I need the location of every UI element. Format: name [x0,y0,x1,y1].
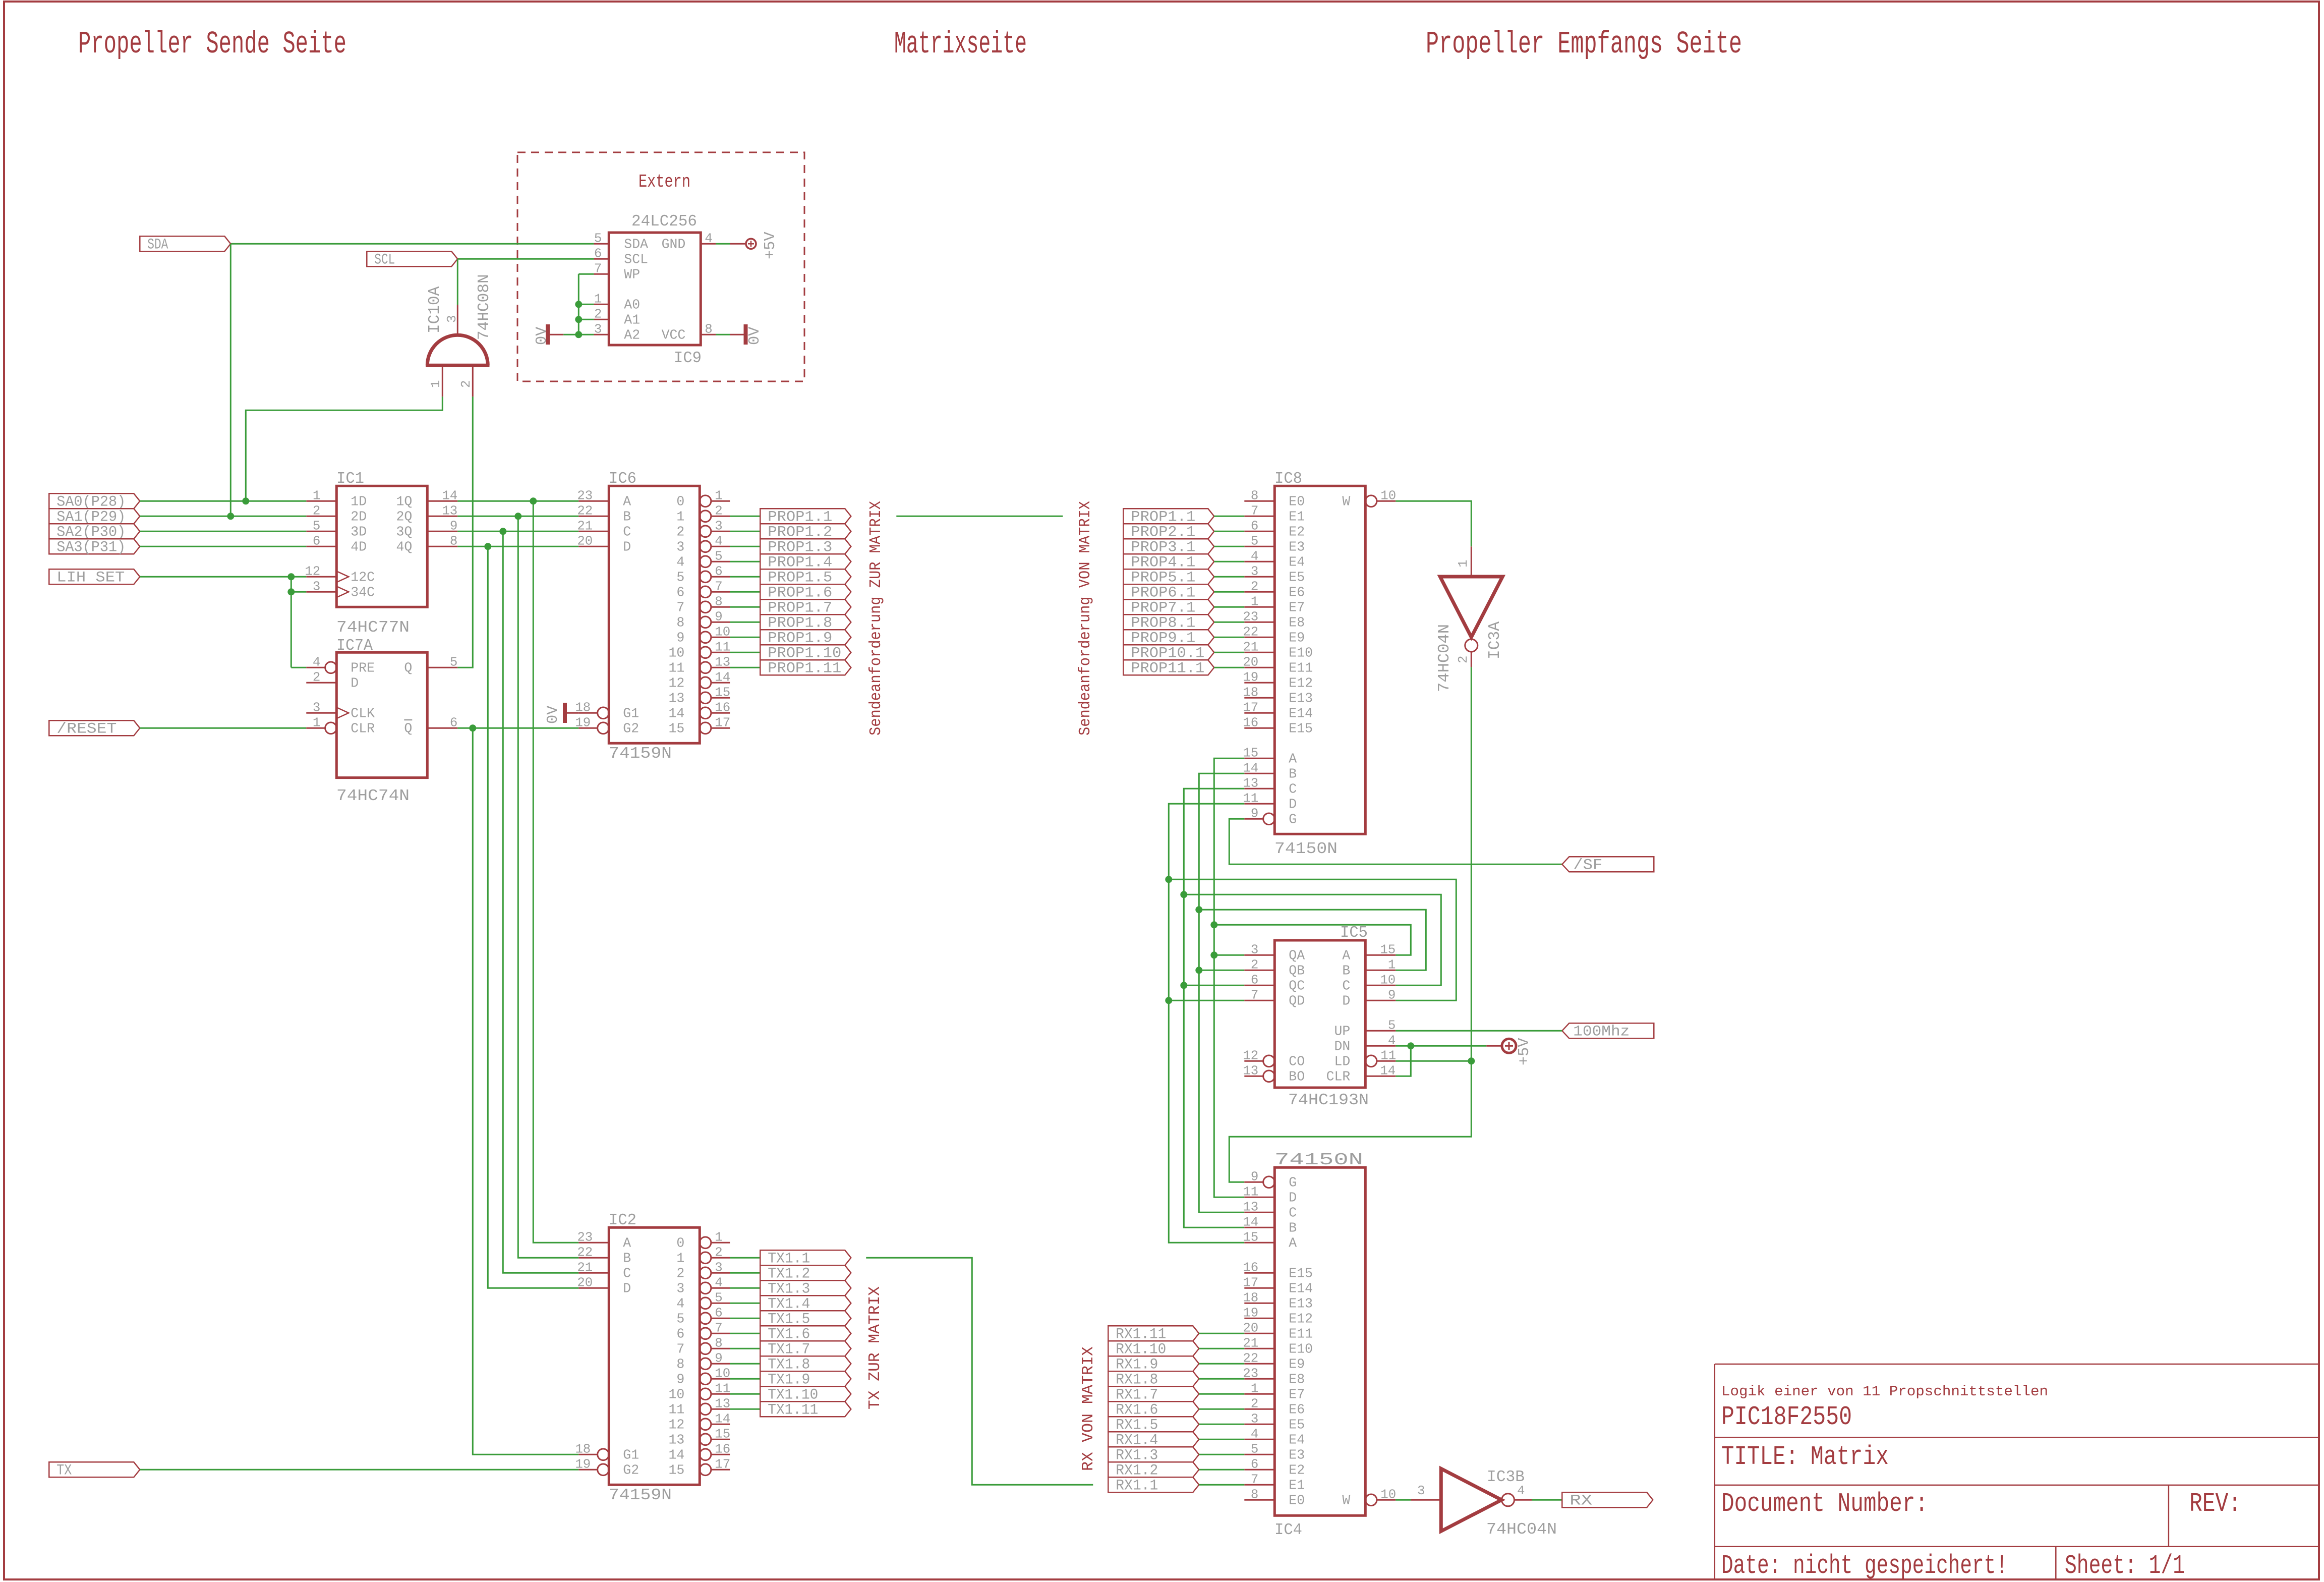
flag /SF [1562,857,1654,872]
svg-text:1: 1 [715,488,722,503]
junction SDA to 2D [227,513,234,520]
svg-text:1: 1 [594,292,602,306]
wire TX1.1 trunk [866,1258,1093,1485]
wire RX1.6 to IC4 [1199,1408,1244,1410]
svg-text:QB: QB [1289,963,1305,978]
svg-text:W: W [1342,1493,1350,1508]
svg-text:/SF: /SF [1573,857,1602,874]
svg-text:8: 8 [1251,1487,1258,1502]
svg-text:CLK: CLK [351,706,375,721]
IC IC6 74159N demultiplexer [609,486,700,743]
svg-text:A1: A1 [624,312,640,327]
svg-text:13: 13 [1243,1200,1258,1214]
svg-text:18: 18 [575,700,591,715]
wire DN to +5V [1396,1045,1486,1047]
svg-text:RX1.5: RX1.5 [1116,1417,1158,1434]
wire IC2 out 6 to flag [730,1333,760,1334]
svg-text:7: 7 [594,261,602,276]
svg-text:B: B [1342,963,1350,978]
svg-text:TX ZUR MATRIX: TX ZUR MATRIX [866,1286,884,1409]
svg-text:E4: E4 [1289,1432,1305,1447]
svg-text:3: 3 [715,1260,722,1275]
svg-text:5: 5 [1251,534,1258,548]
svg-text:E0: E0 [1289,1493,1305,1508]
svg-text:5: 5 [1251,1442,1258,1456]
svg-text:Matrixseite: Matrixseite [894,26,1027,62]
svg-text:IC4: IC4 [1274,1521,1302,1539]
svg-text:G2: G2 [623,1462,639,1478]
svg-text:D: D [623,1281,631,1296]
flag RX1.11 [1108,1326,1199,1341]
svg-text:SDA: SDA [147,236,168,253]
wire IC6 out 10 to flag [730,652,760,653]
svg-text:15: 15 [715,685,730,700]
svg-text:23: 23 [577,488,593,503]
svg-text:3: 3 [676,1281,684,1296]
svg-text:QD: QD [1289,993,1305,1008]
svg-text:7: 7 [676,1341,684,1357]
junction 4Q column D [484,543,491,550]
svg-text:8: 8 [676,1357,684,1372]
svg-text:74HC04N: 74HC04N [1486,1521,1557,1539]
svg-text:74HC04N: 74HC04N [1436,624,1454,692]
wire B to IC5 B [1199,910,1426,970]
svg-text:5: 5 [715,549,722,563]
inverter IC3B 74HC04N [1411,1499,1441,1501]
svg-text:10: 10 [668,645,684,660]
svg-text:11: 11 [1243,1184,1258,1199]
svg-text:GND: GND [662,237,686,252]
svg-text:1: 1 [313,488,320,503]
svg-text:9: 9 [1251,806,1258,821]
svg-text:Propeller Sende Seite: Propeller Sende Seite [78,26,346,62]
svg-text:12: 12 [305,564,320,579]
svg-text:E7: E7 [1289,1387,1305,1402]
wire IC2 out 4 to flag [730,1303,760,1304]
svg-text:PIC18F2550: PIC18F2550 [1721,1402,1852,1432]
svg-text:3: 3 [594,322,602,336]
svg-text:D: D [1289,1190,1297,1205]
wire IC9 A1 tie [578,319,594,320]
svg-text:Propeller Empfangs Seite: Propeller Empfangs Seite [1426,26,1742,62]
flag RX1.10 [1108,1341,1199,1356]
svg-text:5: 5 [450,655,457,669]
svg-text:13: 13 [442,503,457,518]
svg-text:11: 11 [1243,791,1258,806]
svg-text:RX1.2: RX1.2 [1116,1462,1158,1479]
flag SA0(P28) [49,493,140,508]
svg-text:4: 4 [1251,549,1258,563]
svg-text:E9: E9 [1289,630,1305,645]
svg-text:Q: Q [404,660,412,675]
svg-text:2: 2 [715,503,722,518]
svg-text:4: 4 [676,554,684,570]
svg-text:5: 5 [594,231,602,246]
IC IC2 74159N demultiplexer [609,1227,700,1485]
svg-text:QC: QC [1289,978,1305,993]
svg-text:CLR: CLR [1326,1069,1351,1084]
wire D to IC5 D [1169,879,1456,1000]
Extern dashed boundary box [517,152,804,381]
svg-text:12: 12 [668,1417,684,1432]
svg-text:4: 4 [1388,1033,1396,1048]
wire PROP4.1 to IC8 [1214,561,1244,562]
svg-text:14: 14 [442,488,457,503]
svg-text:A: A [623,1235,631,1251]
svg-text:13: 13 [715,1396,730,1411]
svg-text:E12: E12 [1289,1311,1313,1326]
flag SA3(P31) [49,539,140,554]
junction LIH 12C [287,573,295,580]
wire IC3A out down to IC5 LD [1471,667,1472,1061]
svg-text:IC8: IC8 [1274,470,1302,488]
svg-text:BO: BO [1289,1069,1305,1084]
svg-text:C: C [623,524,631,539]
svg-text:3D: 3D [351,524,367,539]
junction notQ G1 drop [469,724,476,731]
wire IC2 out 11 to flag [730,1408,760,1410]
svg-text:8: 8 [715,1336,722,1350]
svg-text:E15: E15 [1289,721,1313,736]
svg-text:E5: E5 [1289,570,1305,585]
wire IC6 out 8 to flag [730,621,760,623]
wire IC2 out 9 to flag [730,1378,760,1380]
svg-text:E1: E1 [1289,1478,1305,1493]
svg-text:7: 7 [676,600,684,615]
svg-text:E9: E9 [1289,1357,1305,1372]
svg-text:34C: 34C [351,585,375,600]
svg-text:14: 14 [1243,761,1258,775]
svg-text:1D: 1D [351,494,367,509]
flag TX1.11 [760,1401,851,1417]
svg-text:2: 2 [715,1245,722,1260]
flag PROP1.1 [760,508,851,524]
junction bus link [1210,921,1217,928]
wire RX1.1 to IC4 [1199,1484,1244,1486]
svg-text:E10: E10 [1289,1341,1313,1357]
svg-text:B: B [623,1251,631,1266]
wire PROP1.1 trunk to matrix [896,516,1063,517]
wire IC1 Q to IC6 input [457,546,578,547]
flag RX1.1 [1108,1477,1199,1492]
flag 100Mhz [1562,1023,1654,1038]
wire LIH SET branch vertical [290,577,292,667]
svg-text:IC1: IC1 [336,470,364,488]
svg-text:1: 1 [715,1230,722,1245]
flag RX1.2 [1108,1462,1199,1477]
svg-text:4: 4 [715,534,722,548]
svg-text:10: 10 [715,625,730,639]
+5V supply symbol at IC9 pin4 [730,243,745,245]
svg-text:19: 19 [1243,1306,1258,1320]
wire SA0(P28) to IC1 [140,500,306,502]
svg-text:13: 13 [715,655,730,669]
svg-text:RX: RX [1570,1492,1592,1509]
flag TX1.2 [760,1265,851,1280]
IC IC9 24LC256 box and pins [609,233,701,345]
IC IC4 74150N multiplexer [1274,1167,1365,1515]
svg-text:9: 9 [676,1372,684,1387]
flag PROP1.6 [760,584,851,599]
wire IC9 WP tie [578,273,594,275]
svg-text:E3: E3 [1289,1447,1305,1462]
wire branch to IC7A PRE [291,667,306,668]
wire net A column [1214,758,1244,1197]
svg-text:3: 3 [445,315,459,323]
svg-text:6: 6 [450,715,457,730]
IC IC5 74HC193N counter [1274,940,1365,1088]
junction QD [1165,997,1172,1004]
svg-text:0: 0 [676,494,684,509]
flag TX1.10 [760,1386,851,1401]
wire RX1.2 to IC4 [1199,1469,1244,1471]
svg-text:A2: A2 [624,327,640,343]
svg-text:18: 18 [575,1442,591,1456]
junction QA [1210,951,1217,958]
wire IC4 W to IC3B [1396,1499,1411,1501]
svg-text:4: 4 [313,655,320,669]
flag PROP10.1 [1123,645,1214,660]
wire column A down to IC2 [533,501,578,1242]
svg-text:TX1.11: TX1.11 [768,1401,818,1419]
svg-text:74HC08N: 74HC08N [476,274,493,340]
svg-text:PROP1.11: PROP1.11 [768,660,841,677]
wire DN to CLR link [1396,1046,1411,1076]
svg-text:1: 1 [676,509,684,524]
junction DN [1407,1042,1414,1049]
svg-text:E12: E12 [1289,675,1313,691]
AND gate IC10A 74HC08N [427,335,488,365]
svg-text:G: G [1289,812,1297,827]
flag /RESET [49,720,140,736]
wire IC9 A0 tie [578,304,594,305]
wire SDA to IC9 pin5 [230,243,594,245]
svg-text:6: 6 [676,585,684,600]
flag SDA [140,236,230,251]
svg-text:E6: E6 [1289,1402,1305,1417]
svg-text:SA3(P31): SA3(P31) [56,539,126,556]
svg-text:TX: TX [56,1462,72,1479]
wire net D column [1169,804,1244,1242]
svg-text:74159N: 74159N [609,745,672,763]
svg-text:SCL: SCL [374,251,395,268]
inverter IC3A 74HC04N [1471,546,1472,577]
svg-text:13: 13 [668,691,684,706]
svg-text:7: 7 [1251,503,1258,518]
svg-text:RX1.8: RX1.8 [1116,1371,1158,1388]
wire IC2 out 10 to flag [730,1393,760,1395]
wire SA2(P30) to IC1 [140,531,306,532]
svg-text:8: 8 [715,594,722,609]
svg-text:C: C [1342,978,1350,993]
svg-text:2: 2 [676,1266,684,1281]
junction LD [1468,1057,1475,1064]
svg-text:G1: G1 [623,1447,639,1462]
svg-text:20: 20 [1243,655,1258,669]
svg-text:Extern: Extern [638,172,690,192]
svg-text:10: 10 [668,1387,684,1402]
flag PROP1.10 [760,645,851,660]
svg-text:14: 14 [715,670,730,685]
flag TX1.4 [760,1295,851,1311]
wire IC1 Q to IC6 input [457,531,578,532]
flag TX [49,1462,140,1477]
flag PROP8.1 [1123,614,1214,630]
svg-text:0V: 0V [746,326,764,345]
svg-text:E1: E1 [1289,509,1305,524]
wire branch to 34C [291,591,306,593]
junction IC9 A1 [575,316,582,323]
svg-text:WP: WP [624,267,640,282]
svg-text:RX1.6: RX1.6 [1116,1401,1158,1419]
svg-text:4: 4 [1251,1427,1258,1441]
svg-text:VCC: VCC [662,327,686,343]
svg-text:2Q: 2Q [396,509,412,524]
svg-text:6: 6 [715,1306,722,1320]
svg-text:RX1.10: RX1.10 [1116,1341,1166,1358]
flag TX1.6 [760,1326,851,1341]
svg-text:16: 16 [715,700,730,715]
wire IC6 out 9 to flag [730,637,760,638]
flag TX1.1 [760,1250,851,1265]
svg-text:19: 19 [575,715,591,730]
svg-text:A0: A0 [624,297,640,312]
wire SA3(P31) to IC1 [140,546,306,547]
svg-text:G2: G2 [623,721,639,736]
svg-text:13: 13 [668,1432,684,1447]
wire PROP10.1 to IC8 [1214,652,1244,653]
flag RX [1562,1492,1653,1507]
svg-text:E4: E4 [1289,554,1305,570]
svg-text:12: 12 [668,675,684,691]
svg-text:RX1.1: RX1.1 [1116,1477,1158,1494]
svg-text:21: 21 [1243,640,1258,654]
svg-text:16: 16 [1243,1260,1258,1275]
wire IC1 Q to IC6 input [457,500,578,502]
svg-text:14: 14 [668,706,684,721]
svg-text:8: 8 [1251,488,1258,503]
svg-text:13: 13 [1243,1063,1258,1078]
svg-text:D: D [351,675,359,691]
svg-text:G: G [1289,1175,1297,1190]
svg-text:Date: nicht gespeichert!: Date: nicht gespeichert! [1721,1551,2008,1581]
wire IC2 out 2 to flag [730,1272,760,1274]
svg-text:D: D [623,539,631,554]
flag PROP1.3 [760,539,851,554]
svg-text:1: 1 [676,1251,684,1266]
svg-text:1: 1 [429,380,443,388]
svg-text:2: 2 [313,503,320,518]
wire SDA vertical [230,244,231,516]
svg-text:RX1.11: RX1.11 [1116,1326,1166,1343]
svg-text:Sheet: 1/1: Sheet: 1/1 [2065,1551,2185,1581]
flag LIH SET [49,569,140,584]
svg-text:RX1.3: RX1.3 [1116,1447,1158,1464]
wire IC8 W to IC3A [1396,501,1471,546]
wire PROP3.1 to IC8 [1214,546,1244,547]
svg-text:100Mhz: 100Mhz [1573,1023,1630,1040]
flag PROP4.1 [1123,554,1214,569]
svg-text:W: W [1342,494,1350,509]
wire IC2 out 3 to flag [730,1287,760,1289]
wire RX1.8 to IC4 [1199,1378,1244,1380]
svg-text:2: 2 [1251,957,1258,972]
IC IC8 74150N multiplexer [1274,486,1365,834]
wire IC10A pin1 to 1D net [246,397,442,501]
wire IC6 out 2 to flag [730,531,760,532]
wire QB to net B [1199,970,1244,971]
flag RX1.5 [1108,1417,1199,1432]
svg-text:9: 9 [450,519,457,533]
svg-text:C: C [1289,1205,1297,1220]
svg-text:E15: E15 [1289,1266,1313,1281]
svg-text:74150N: 74150N [1274,1150,1363,1169]
wire RX1.3 to IC4 [1199,1454,1244,1455]
svg-text:IC3A: IC3A [1486,621,1504,659]
junction bus link [1195,906,1202,913]
svg-text:9: 9 [715,1351,722,1366]
svg-text:PRE: PRE [351,660,375,675]
wire QA to net A [1214,954,1244,956]
svg-text:7: 7 [715,579,722,594]
flag SA1(P29) [49,508,140,524]
svg-text:C: C [1289,781,1297,797]
svg-text:23: 23 [577,1230,593,1245]
flag PROP1.11 [760,660,851,675]
wire column C down to IC2 [503,531,578,1273]
svg-text:LIH SET: LIH SET [56,569,125,586]
flag PROP1.1 [1123,508,1214,524]
svg-text:Q: Q [404,721,412,736]
svg-text:6: 6 [1251,519,1258,533]
svg-text:1Q: 1Q [396,494,412,509]
junction QC [1180,982,1187,989]
svg-text:74150N: 74150N [1274,840,1338,858]
svg-text:IC7A: IC7A [336,637,373,655]
svg-text:1: 1 [1251,1381,1258,1396]
junction AND1 to 1D [242,497,249,504]
svg-text:14: 14 [1380,1063,1396,1078]
0V ground symbol near IC9 A2 [548,334,563,335]
svg-text:G1: G1 [623,706,639,721]
svg-text:3: 3 [1417,1484,1425,1498]
svg-text:16: 16 [1243,715,1258,730]
wire IC2 out 5 to flag [730,1318,760,1319]
svg-text:24LC256: 24LC256 [631,212,697,231]
svg-text:1: 1 [313,715,320,730]
svg-text:10: 10 [715,1366,730,1381]
svg-text:3: 3 [313,579,320,594]
wire IC6 out 3 to flag [730,546,760,547]
svg-text:0V: 0V [534,326,551,345]
flag RX1.6 [1108,1401,1199,1417]
flag TX1.7 [760,1341,851,1356]
flag SA2(P30) [49,524,140,539]
wire RX1.11 to IC4 [1199,1333,1244,1334]
svg-text:E8: E8 [1289,1372,1305,1387]
wire column B down to IC2 [518,516,578,1258]
svg-text:IC2: IC2 [609,1212,636,1229]
svg-text:10: 10 [1380,488,1396,503]
flag TX1.3 [760,1280,851,1295]
wire /RESET to IC7A CLR [140,727,306,729]
wire IC3B to RX flag [1532,1499,1562,1501]
svg-text:RX VON MATRIX: RX VON MATRIX [1080,1346,1097,1471]
junction QB [1195,967,1202,974]
svg-text:18: 18 [1243,685,1258,700]
svg-text:74HC193N: 74HC193N [1288,1092,1369,1109]
svg-text:18: 18 [1243,1290,1258,1305]
